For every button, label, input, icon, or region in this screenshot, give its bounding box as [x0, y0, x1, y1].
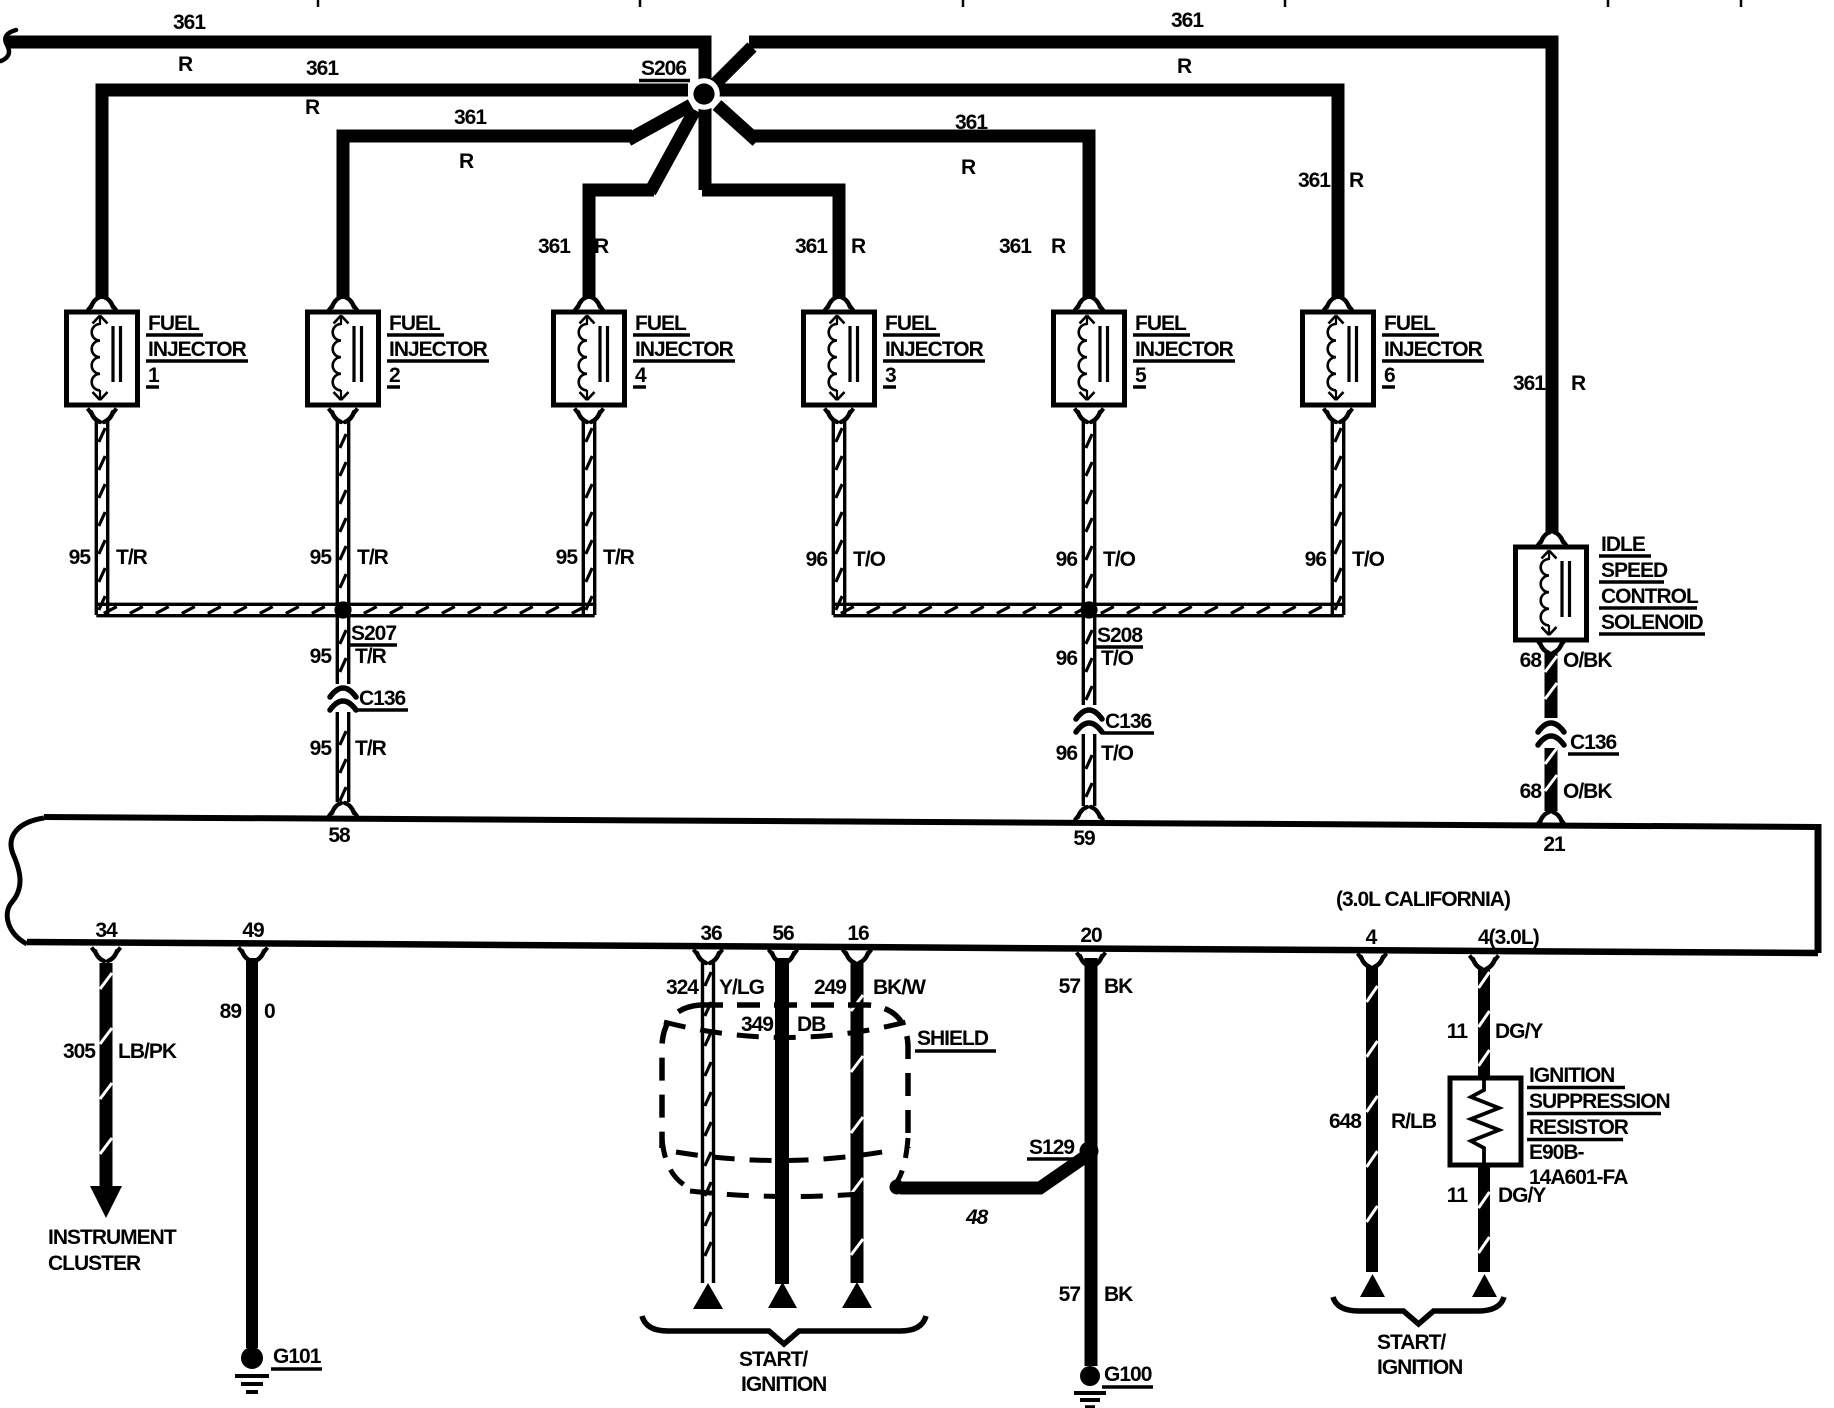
svg-text:R: R — [851, 235, 866, 258]
svg-text:FUEL: FUEL — [1135, 312, 1187, 335]
svg-text:DB: DB — [797, 1013, 826, 1036]
svg-text:96: 96 — [1056, 548, 1078, 571]
svg-text:36: 36 — [700, 922, 722, 945]
svg-text:11: 11 — [1447, 1184, 1469, 1207]
svg-text:INJECTOR: INJECTOR — [635, 338, 734, 361]
svg-text:0: 0 — [264, 1000, 275, 1023]
svg-text:361: 361 — [173, 11, 206, 34]
svg-text:INJECTOR: INJECTOR — [885, 338, 984, 361]
svg-text:INSTRUMENT: INSTRUMENT — [48, 1226, 177, 1249]
svg-text:361: 361 — [1298, 169, 1331, 192]
svg-text:FUEL: FUEL — [148, 312, 200, 335]
svg-text:T/O: T/O — [853, 548, 886, 571]
svg-text:R: R — [594, 235, 609, 258]
svg-text:R: R — [178, 53, 193, 76]
svg-text:305: 305 — [63, 1040, 96, 1063]
svg-text:SOLENOID: SOLENOID — [1601, 611, 1704, 634]
svg-text:361: 361 — [306, 57, 339, 80]
svg-text:49: 49 — [242, 919, 264, 942]
svg-text:95: 95 — [69, 546, 92, 569]
svg-text:T/O: T/O — [1101, 742, 1134, 765]
svg-text:S129: S129 — [1029, 1136, 1074, 1159]
svg-text:14A601-FA: 14A601-FA — [1529, 1166, 1628, 1189]
svg-text:361: 361 — [999, 235, 1032, 258]
svg-text:T/R: T/R — [603, 546, 635, 569]
svg-text:68: 68 — [1520, 780, 1543, 803]
svg-text:CLUSTER: CLUSTER — [48, 1252, 141, 1275]
svg-text:SPEED: SPEED — [1601, 559, 1668, 582]
svg-text:SHIELD: SHIELD — [917, 1027, 989, 1050]
svg-text:R/LB: R/LB — [1391, 1110, 1437, 1133]
svg-text:S207: S207 — [351, 622, 396, 645]
svg-text:56: 56 — [772, 922, 794, 945]
svg-text:95: 95 — [310, 645, 333, 668]
svg-text:T/O: T/O — [1103, 548, 1136, 571]
svg-text:T/O: T/O — [1101, 647, 1134, 670]
svg-text:T/O: T/O — [1352, 548, 1385, 571]
svg-text:48: 48 — [965, 1206, 989, 1229]
svg-text:16: 16 — [847, 922, 869, 945]
svg-text:IGNITION: IGNITION — [1377, 1356, 1462, 1379]
svg-text:T/R: T/R — [116, 546, 148, 569]
svg-text:361: 361 — [795, 235, 828, 258]
svg-text:95: 95 — [310, 546, 333, 569]
svg-text:BK: BK — [1104, 1283, 1133, 1306]
svg-text:648: 648 — [1329, 1110, 1362, 1133]
svg-text:C136: C136 — [359, 687, 406, 710]
svg-text:C136: C136 — [1105, 710, 1152, 733]
svg-text:IGNITION: IGNITION — [1529, 1064, 1614, 1087]
svg-text:349: 349 — [741, 1013, 773, 1036]
svg-text:96: 96 — [1056, 647, 1078, 670]
svg-text:INJECTOR: INJECTOR — [389, 338, 488, 361]
svg-text:361: 361 — [1171, 9, 1204, 32]
svg-text:Y/LG: Y/LG — [719, 976, 765, 999]
svg-text:BK/W: BK/W — [873, 976, 926, 999]
svg-text:E90B-: E90B- — [1529, 1141, 1585, 1164]
svg-text:249: 249 — [814, 976, 846, 999]
svg-text:INJECTOR: INJECTOR — [1135, 338, 1234, 361]
svg-text:57: 57 — [1059, 1283, 1081, 1306]
svg-text:(3.0L CALIFORNIA): (3.0L CALIFORNIA) — [1336, 888, 1510, 911]
svg-text:R: R — [961, 156, 976, 179]
svg-text:20: 20 — [1080, 924, 1102, 947]
svg-text:S208: S208 — [1097, 624, 1143, 647]
svg-text:68: 68 — [1520, 649, 1543, 672]
svg-text:21: 21 — [1543, 833, 1566, 856]
svg-text:3: 3 — [885, 364, 896, 387]
svg-text:96: 96 — [1056, 742, 1078, 765]
svg-text:361: 361 — [538, 235, 571, 258]
svg-text:T/R: T/R — [357, 546, 389, 569]
svg-text:96: 96 — [1305, 548, 1327, 571]
svg-text:6: 6 — [1384, 364, 1395, 387]
svg-text:C136: C136 — [1570, 731, 1617, 754]
svg-text:R: R — [1051, 235, 1066, 258]
svg-text:START/: START/ — [1377, 1331, 1446, 1354]
svg-text:57: 57 — [1059, 975, 1081, 998]
svg-text:89: 89 — [220, 1000, 242, 1023]
svg-text:96: 96 — [806, 548, 828, 571]
svg-text:CONTROL: CONTROL — [1601, 585, 1699, 608]
svg-text:2: 2 — [389, 364, 400, 387]
svg-text:324: 324 — [666, 976, 699, 999]
svg-text:FUEL: FUEL — [389, 312, 441, 335]
svg-text:R: R — [1349, 169, 1364, 192]
svg-text:4: 4 — [635, 364, 647, 387]
svg-text:361: 361 — [1513, 372, 1546, 395]
svg-text:59: 59 — [1073, 827, 1095, 850]
svg-text:RESISTOR: RESISTOR — [1529, 1116, 1629, 1139]
svg-text:O/BK: O/BK — [1563, 780, 1612, 803]
svg-text:LB/PK: LB/PK — [118, 1040, 177, 1063]
svg-text:R: R — [459, 150, 474, 173]
svg-text:BK: BK — [1104, 975, 1133, 998]
svg-text:S206: S206 — [641, 57, 686, 80]
svg-text:O/BK: O/BK — [1563, 649, 1612, 672]
svg-text:4(3.0L): 4(3.0L) — [1478, 926, 1539, 949]
svg-text:11: 11 — [1447, 1020, 1469, 1043]
svg-text:FUEL: FUEL — [1384, 312, 1436, 335]
svg-text:5: 5 — [1135, 364, 1147, 387]
svg-text:INJECTOR: INJECTOR — [148, 338, 247, 361]
svg-text:G101: G101 — [273, 1345, 322, 1368]
svg-text:95: 95 — [310, 737, 333, 760]
svg-text:FUEL: FUEL — [635, 312, 687, 335]
svg-text:IGNITION: IGNITION — [741, 1373, 826, 1396]
svg-text:SUPPRESSION: SUPPRESSION — [1529, 1090, 1670, 1113]
svg-text:R: R — [305, 96, 320, 119]
svg-text:INJECTOR: INJECTOR — [1384, 338, 1483, 361]
svg-text:4: 4 — [1366, 926, 1378, 949]
svg-text:361: 361 — [955, 111, 988, 134]
svg-text:FUEL: FUEL — [885, 312, 937, 335]
svg-text:DG/Y: DG/Y — [1495, 1020, 1543, 1043]
svg-text:IDLE: IDLE — [1601, 533, 1646, 556]
svg-text:T/R: T/R — [355, 737, 387, 760]
svg-text:T/R: T/R — [355, 645, 387, 668]
svg-text:R: R — [1571, 372, 1586, 395]
svg-text:95: 95 — [556, 546, 579, 569]
svg-text:START/: START/ — [739, 1348, 808, 1371]
svg-text:R: R — [1177, 55, 1192, 78]
svg-text:58: 58 — [328, 824, 351, 847]
svg-text:G100: G100 — [1104, 1363, 1152, 1386]
svg-text:1: 1 — [148, 364, 160, 387]
svg-text:361: 361 — [454, 106, 487, 129]
svg-text:34: 34 — [95, 919, 118, 942]
